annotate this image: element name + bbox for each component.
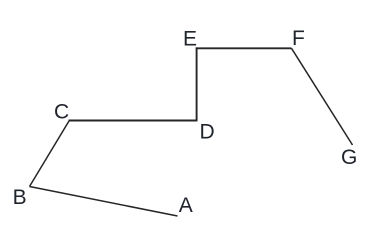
svg-text:F: F: [292, 27, 305, 50]
wire B-C: [30, 121, 70, 187]
svg-text:A: A: [179, 194, 193, 217]
wire F-G: [292, 48, 353, 145]
wire E-F: [196, 47, 292, 49]
svg-text:B: B: [13, 186, 27, 209]
svg-text:E: E: [183, 27, 197, 50]
svg-text:G: G: [341, 146, 357, 169]
wire B-A: [30, 187, 178, 217]
wire D-E: [196, 47, 198, 121]
svg-text:C: C: [54, 100, 69, 123]
svg-text:D: D: [200, 120, 215, 143]
wire C-D: [69, 120, 197, 122]
